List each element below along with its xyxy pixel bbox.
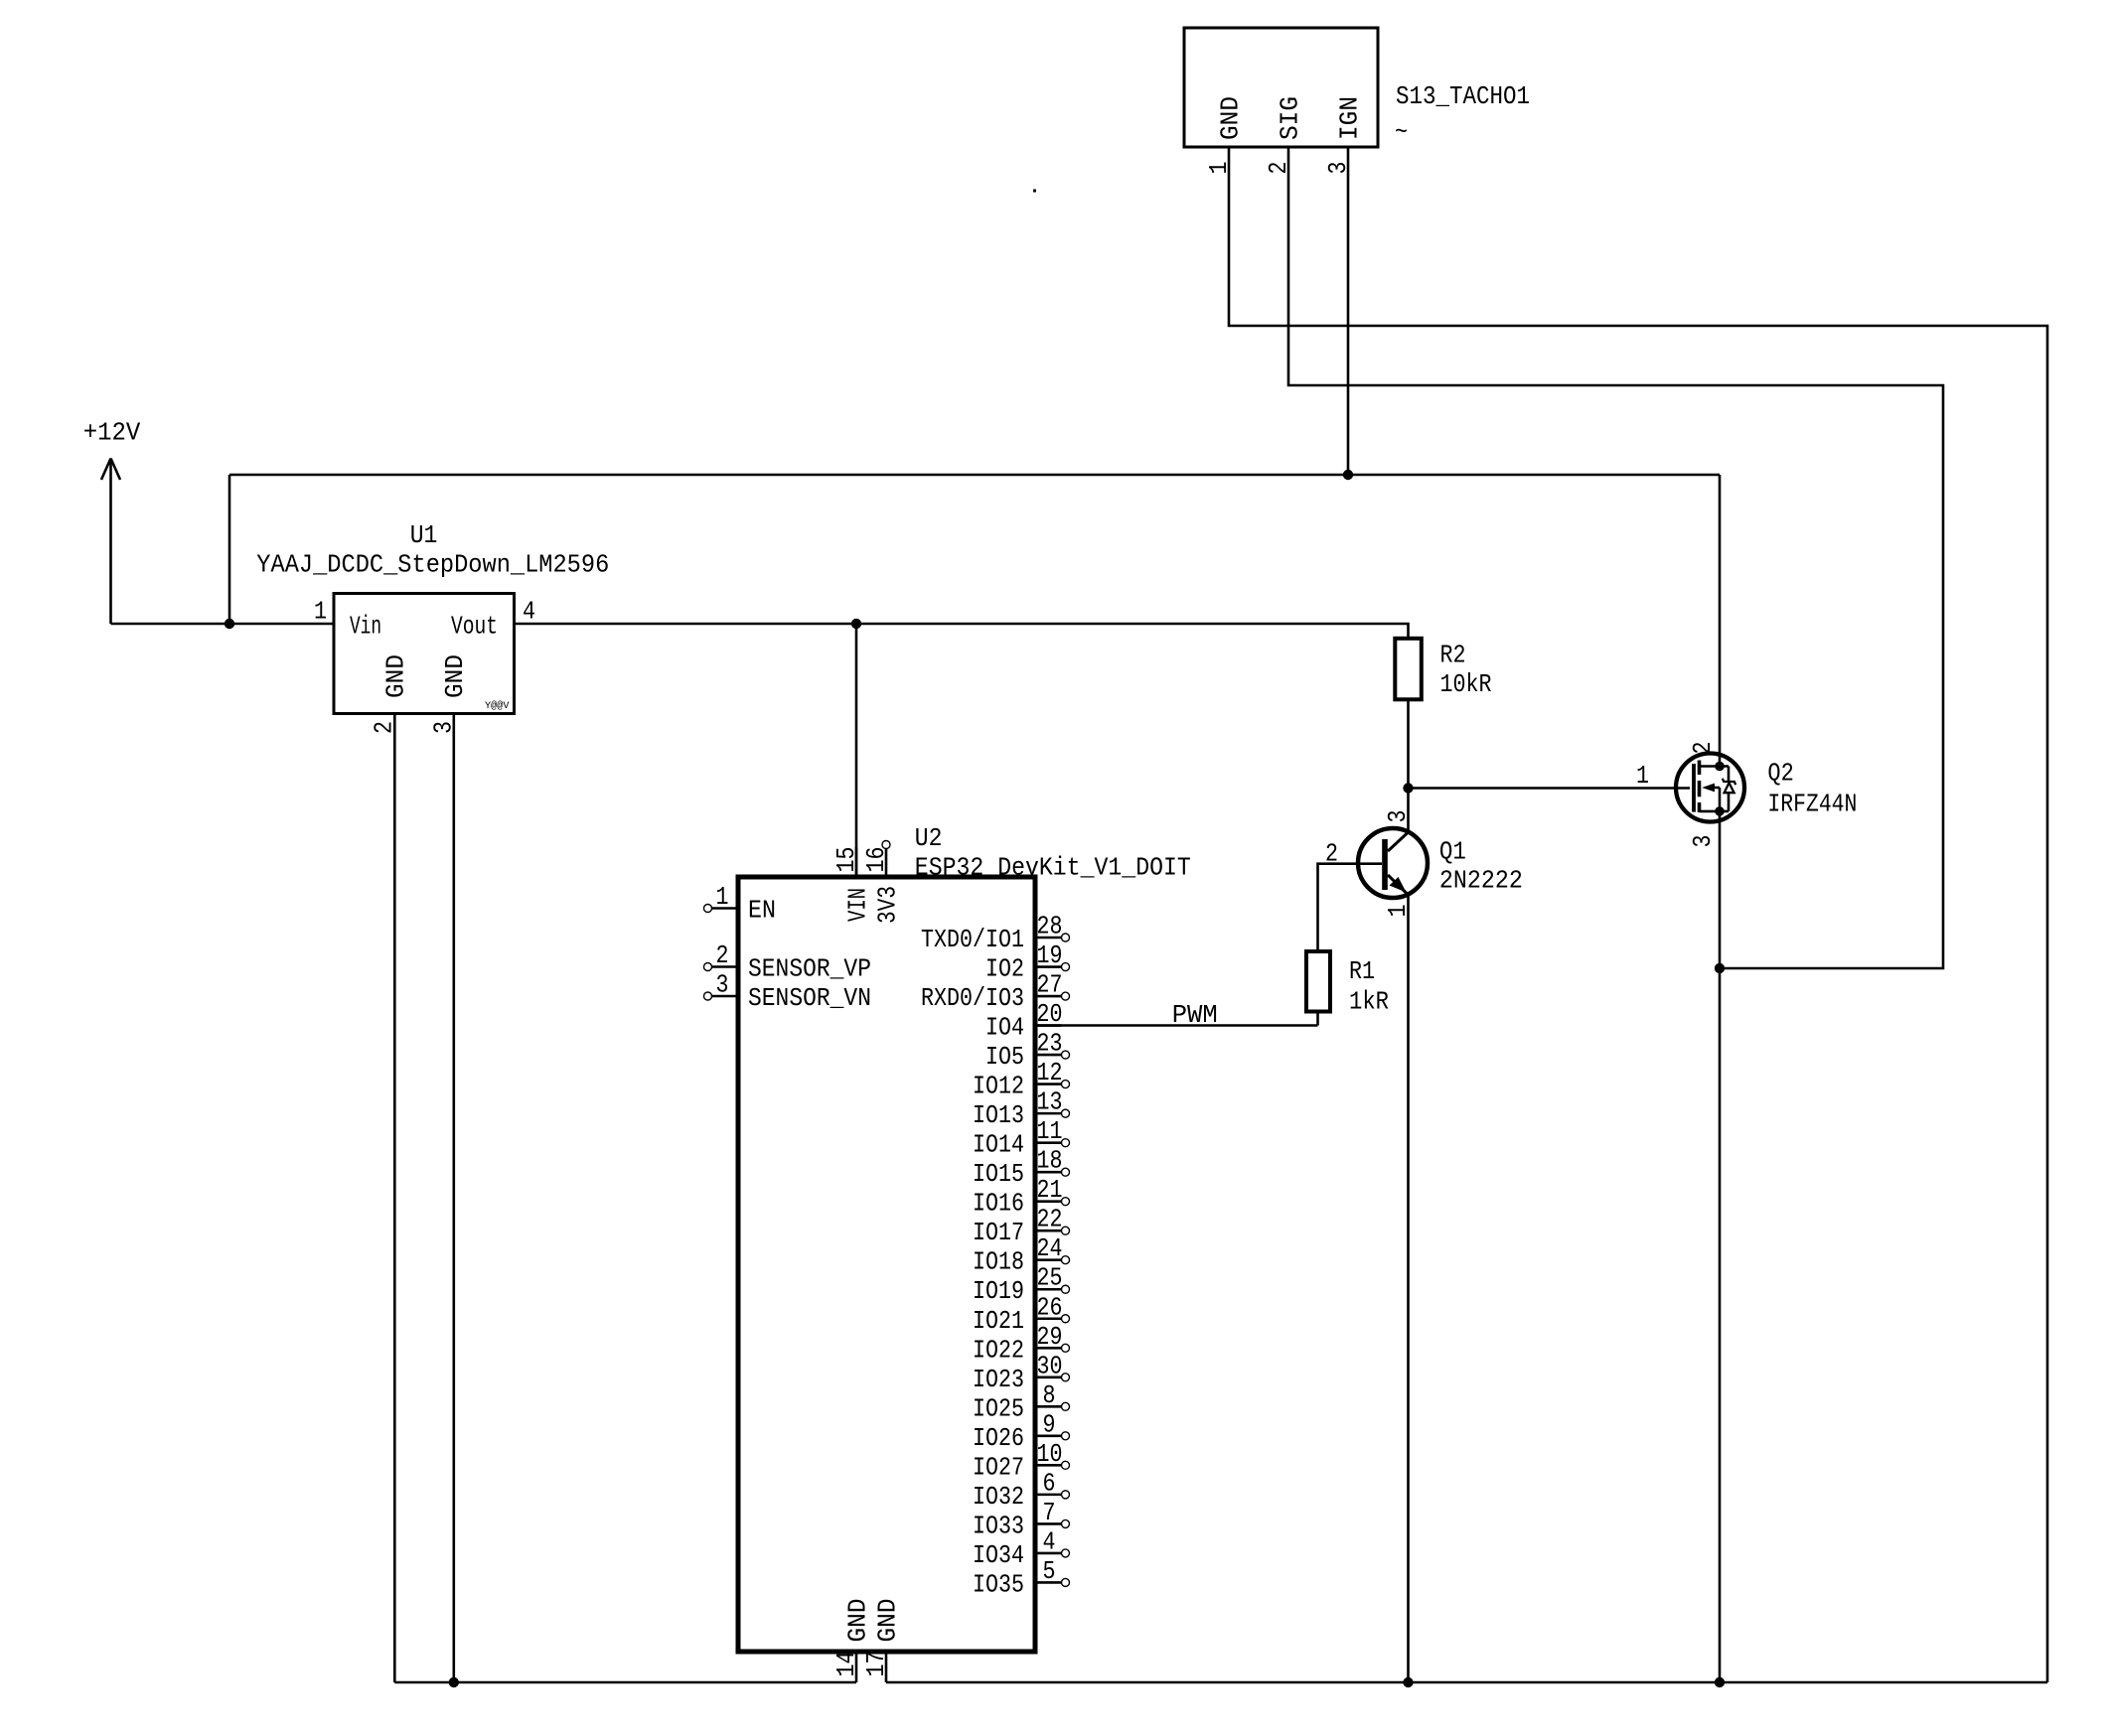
svg-text:IO5: IO5 bbox=[985, 1042, 1024, 1072]
U2 pin 24 IO18 bbox=[973, 1233, 1070, 1277]
U2 pin 1 EN bbox=[704, 882, 777, 926]
wire +12V rail drop to Q2 drain bbox=[1719, 475, 1722, 767]
U2 pin 19 IO2 bbox=[985, 940, 1070, 984]
wire junction down to Q1 collector bbox=[1407, 789, 1410, 833]
junction Q2 source on ground rail bbox=[1715, 1677, 1725, 1687]
svg-text:GND: GND bbox=[440, 654, 470, 698]
svg-text:GND: GND bbox=[1216, 96, 1246, 140]
U2 pin 4 IO34 bbox=[973, 1526, 1070, 1570]
wire U1 pin 3 to ground rail bbox=[452, 744, 455, 1683]
svg-text:SENSOR_VP: SENSOR_VP bbox=[748, 954, 871, 984]
svg-text:IO25: IO25 bbox=[973, 1393, 1024, 1423]
svg-text:18: 18 bbox=[1037, 1146, 1063, 1176]
svg-text:IO27: IO27 bbox=[973, 1452, 1024, 1482]
svg-text:IO35: IO35 bbox=[973, 1569, 1024, 1599]
svg-text:3: 3 bbox=[1383, 810, 1413, 823]
svg-text:ESP32_DevKit_V1_DOIT: ESP32_DevKit_V1_DOIT bbox=[915, 853, 1191, 883]
U2 pin 7 IO33 bbox=[973, 1498, 1070, 1541]
svg-text:6: 6 bbox=[1043, 1468, 1056, 1498]
svg-text:19: 19 bbox=[1037, 940, 1063, 970]
svg-text:IO13: IO13 bbox=[973, 1100, 1024, 1130]
svg-text:GND: GND bbox=[873, 1599, 903, 1643]
svg-text:R1: R1 bbox=[1349, 956, 1375, 986]
svg-text:IO33: IO33 bbox=[973, 1511, 1024, 1540]
svg-text:3: 3 bbox=[428, 721, 458, 734]
wire IGN net from S13 pin 3 down to +12V rail bbox=[1347, 177, 1350, 475]
svg-text:17: 17 bbox=[861, 1652, 891, 1677]
U2 pin 21 IO16 bbox=[973, 1175, 1070, 1219]
svg-text:IO16: IO16 bbox=[973, 1189, 1024, 1219]
svg-text:GND: GND bbox=[381, 654, 411, 698]
svg-text:20: 20 bbox=[1037, 999, 1063, 1029]
U2 pin 15 VIN (top) bbox=[831, 847, 873, 923]
U1 pin 2 GND bbox=[370, 654, 411, 744]
wire Q1 base bbox=[1318, 864, 1383, 951]
svg-text:YAAJ_DCDC_StepDown_LM2596: YAAJ_DCDC_StepDown_LM2596 bbox=[256, 549, 609, 579]
svg-text:21: 21 bbox=[1037, 1175, 1063, 1205]
svg-text:3: 3 bbox=[716, 970, 729, 1000]
svg-text:2N2222: 2N2222 bbox=[1439, 866, 1523, 896]
svg-text:1: 1 bbox=[1204, 162, 1234, 175]
svg-text:29: 29 bbox=[1037, 1322, 1063, 1352]
stray dot artifact bbox=[1033, 190, 1036, 193]
svg-text:Y@@V: Y@@V bbox=[485, 700, 510, 712]
svg-text:IO14: IO14 bbox=[973, 1130, 1024, 1160]
svg-text:22: 22 bbox=[1037, 1205, 1063, 1234]
U2 pin 9 IO26 bbox=[973, 1409, 1070, 1453]
U1 pin 4 Vout bbox=[451, 597, 544, 642]
U2 pin 8 IO25 bbox=[973, 1380, 1070, 1424]
connector S13_TACHO1 bbox=[1184, 28, 1530, 147]
svg-text:Q2: Q2 bbox=[1767, 759, 1793, 789]
svg-text:RXD0/IO3: RXD0/IO3 bbox=[921, 983, 1024, 1013]
svg-text:26: 26 bbox=[1037, 1292, 1063, 1322]
svg-text:SENSOR_VN: SENSOR_VN bbox=[748, 983, 871, 1013]
svg-text:VIN: VIN bbox=[843, 888, 873, 922]
svg-text:+12V: +12V bbox=[83, 417, 141, 447]
svg-text:11: 11 bbox=[1037, 1116, 1063, 1146]
wire ground rail left segment bbox=[394, 1681, 856, 1684]
svg-text:5: 5 bbox=[1043, 1556, 1056, 1586]
module U2 ESP32_DevKit_V1_DOIT body bbox=[738, 823, 1191, 1652]
pin 3 (IGN) of S13_TACHO1 bbox=[1323, 96, 1365, 177]
transistor Q1 2N2222 bbox=[1325, 810, 1523, 918]
junction Q1 emitter on ground rail bbox=[1403, 1677, 1413, 1687]
svg-text:Vout: Vout bbox=[451, 611, 498, 641]
svg-text:9: 9 bbox=[1043, 1409, 1056, 1439]
svg-text:1kR: 1kR bbox=[1349, 987, 1389, 1017]
svg-text:2: 2 bbox=[1688, 742, 1718, 755]
U2 pin 6 IO32 bbox=[973, 1468, 1070, 1512]
U2 pin 13 IO13 bbox=[973, 1087, 1070, 1131]
svg-text:IO34: IO34 bbox=[973, 1540, 1024, 1570]
U1 pin 3 GND bbox=[428, 654, 470, 744]
svg-text:EN: EN bbox=[748, 896, 776, 926]
U2 pin 28 TXD0/IO1 bbox=[921, 912, 1070, 955]
svg-text:SIG: SIG bbox=[1276, 96, 1305, 140]
U2 pin 25 IO19 bbox=[973, 1263, 1070, 1307]
U2 pin 16 3V3 (top) bbox=[861, 841, 903, 925]
junction +12V at U1 Vin riser bbox=[225, 619, 234, 629]
svg-text:IO18: IO18 bbox=[973, 1247, 1024, 1277]
svg-text:Vin: Vin bbox=[350, 611, 381, 641]
junction Vout to U2 VIN bbox=[851, 619, 861, 629]
svg-text:IRFZ44N: IRFZ44N bbox=[1767, 789, 1857, 818]
U2 pin 30 IO23 bbox=[973, 1351, 1070, 1394]
U2 pin 3 SENSOR_VN bbox=[704, 970, 872, 1014]
svg-text:IO32: IO32 bbox=[973, 1482, 1024, 1512]
U2 pin 17 GND (bottom) bbox=[861, 1599, 903, 1683]
pin 1 (GND) of S13_TACHO1 bbox=[1204, 96, 1246, 177]
svg-text:24: 24 bbox=[1037, 1233, 1063, 1263]
junction SIG on Q2 source bbox=[1715, 963, 1725, 973]
wire SIG net from S13 pin 2 to Q2 source bbox=[1288, 177, 1943, 968]
junction IGN on +12V rail bbox=[1343, 470, 1353, 480]
svg-text:IO15: IO15 bbox=[973, 1159, 1024, 1189]
U2 pin 29 IO22 bbox=[973, 1322, 1070, 1366]
svg-text:IO4: IO4 bbox=[985, 1013, 1024, 1043]
wire PWM net to U2 IO4 bbox=[1035, 1024, 1318, 1027]
svg-text:TXD0/IO1: TXD0/IO1 bbox=[921, 925, 1024, 954]
svg-text:15: 15 bbox=[831, 847, 861, 873]
svg-text:1: 1 bbox=[314, 597, 327, 627]
svg-text:2: 2 bbox=[1264, 162, 1293, 175]
wire GND net from S13 pin 1 to right edge and down bbox=[1229, 177, 2047, 1682]
junction U1 pin3 on ground rail bbox=[449, 1677, 459, 1687]
U2 pin 5 IO35 bbox=[973, 1556, 1070, 1600]
svg-text:30: 30 bbox=[1037, 1351, 1063, 1380]
svg-text:2: 2 bbox=[716, 940, 729, 970]
svg-text:10kR: 10kR bbox=[1440, 669, 1492, 699]
wire Q2 source to ground rail bbox=[1719, 811, 1722, 1682]
U2 pin 11 IO14 bbox=[973, 1116, 1070, 1160]
wire Vout net bbox=[544, 624, 1409, 639]
wire R2 bottom to gate junction bbox=[1407, 699, 1410, 788]
U2 pin 22 IO17 bbox=[973, 1205, 1070, 1248]
svg-text:12: 12 bbox=[1037, 1058, 1063, 1087]
U2 pin 2 SENSOR_VP bbox=[704, 940, 872, 984]
svg-text:1: 1 bbox=[716, 882, 729, 912]
svg-text:~: ~ bbox=[1395, 117, 1408, 147]
wire +12V to U1 Vin bbox=[111, 623, 305, 626]
mosfet Q2 IRFZ44N bbox=[1636, 742, 1857, 848]
svg-text:3V3: 3V3 bbox=[873, 886, 903, 924]
wire R1 bottom stub bbox=[1316, 1012, 1319, 1026]
svg-text:S13_TACHO1: S13_TACHO1 bbox=[1396, 81, 1530, 111]
U2 pin 23 IO5 bbox=[985, 1029, 1070, 1073]
svg-text:8: 8 bbox=[1043, 1380, 1056, 1410]
svg-text:1: 1 bbox=[1636, 761, 1649, 791]
svg-text:4: 4 bbox=[523, 597, 535, 627]
svg-text:IO22: IO22 bbox=[973, 1335, 1024, 1365]
svg-text:U1: U1 bbox=[410, 520, 438, 550]
U2 pin 20 IO4 bbox=[985, 999, 1063, 1043]
svg-text:IO21: IO21 bbox=[973, 1306, 1024, 1336]
wire +12V rail bbox=[229, 474, 1720, 477]
svg-text:IO23: IO23 bbox=[973, 1365, 1024, 1394]
svg-text:IO17: IO17 bbox=[973, 1218, 1024, 1247]
svg-text:10: 10 bbox=[1037, 1439, 1063, 1469]
svg-text:IO12: IO12 bbox=[973, 1072, 1024, 1101]
svg-text:2: 2 bbox=[370, 721, 399, 734]
junction gate node bbox=[1403, 783, 1413, 793]
wire U1 pin 2 to ground rail bbox=[393, 744, 396, 1683]
U2 pin 27 RXD0/IO3 bbox=[921, 970, 1070, 1014]
svg-text:25: 25 bbox=[1037, 1263, 1063, 1293]
svg-text:13: 13 bbox=[1037, 1087, 1063, 1117]
svg-text:7: 7 bbox=[1043, 1498, 1056, 1527]
regulator U1 YAAJ_DCDC_StepDown_LM2596 body bbox=[256, 520, 609, 714]
U2 pin 26 IO21 bbox=[973, 1292, 1070, 1336]
pin 2 (SIG) of S13_TACHO1 bbox=[1264, 96, 1305, 177]
svg-text:3: 3 bbox=[1323, 162, 1353, 175]
svg-text:23: 23 bbox=[1037, 1029, 1063, 1059]
U2 pin 18 IO15 bbox=[973, 1146, 1070, 1190]
wire gate net to Q2 gate bbox=[1409, 787, 1691, 790]
power symbol +12V bbox=[83, 417, 141, 624]
svg-text:PWM: PWM bbox=[1172, 1000, 1218, 1030]
svg-text:IGN: IGN bbox=[1335, 96, 1365, 140]
svg-text:16: 16 bbox=[861, 847, 891, 873]
svg-text:R2: R2 bbox=[1440, 640, 1466, 669]
svg-text:4: 4 bbox=[1043, 1526, 1056, 1556]
svg-text:IO26: IO26 bbox=[973, 1423, 1024, 1453]
wire Q1 emitter to ground rail bbox=[1407, 895, 1410, 1682]
svg-text:14: 14 bbox=[831, 1652, 861, 1677]
wire ground rail right segment bbox=[886, 1681, 2047, 1684]
svg-text:IO2: IO2 bbox=[985, 954, 1024, 984]
wire +12V riser bbox=[228, 475, 231, 624]
resistor R1 1kR bbox=[1306, 951, 1389, 1017]
U2 pin 12 IO12 bbox=[973, 1058, 1070, 1101]
U2 pin 10 IO27 bbox=[973, 1439, 1070, 1483]
svg-text:28: 28 bbox=[1037, 912, 1063, 941]
svg-text:U2: U2 bbox=[915, 823, 943, 853]
svg-text:GND: GND bbox=[843, 1599, 873, 1643]
U2 pin 14 GND (bottom) bbox=[831, 1599, 873, 1683]
U1 pin 1 Vin bbox=[304, 597, 381, 642]
svg-text:3: 3 bbox=[1688, 835, 1718, 848]
svg-text:IO19: IO19 bbox=[973, 1276, 1024, 1306]
resistor R2 10kR bbox=[1395, 639, 1491, 700]
wire Vout drop to U2 VIN bbox=[855, 624, 858, 877]
svg-text:Q1: Q1 bbox=[1439, 836, 1466, 866]
svg-text:27: 27 bbox=[1037, 970, 1063, 1000]
